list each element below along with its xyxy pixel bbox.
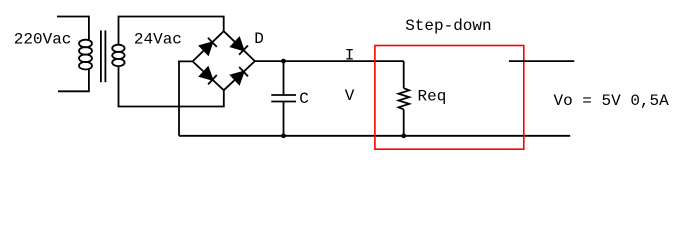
svg-text:V: V (345, 87, 355, 105)
diode D1 top-left (193, 31, 224, 61)
step-down converter block red box (375, 46, 524, 150)
diode D3 bottom-left (193, 61, 224, 90)
svg-text:220Vac: 220Vac (14, 31, 72, 49)
diode D2 top-right (224, 31, 255, 61)
svg-text:Vo = 5V 0,5A: Vo = 5V 0,5A (554, 92, 670, 110)
wire primary top stub (57, 17, 89, 42)
wire secondary bottom to bridge AC input (119, 66, 224, 107)
svg-text:C: C (299, 90, 309, 108)
node junction capacitor bottom (281, 133, 286, 138)
transformer T1 primary winding (79, 40, 92, 70)
svg-text:24Vac: 24Vac (134, 31, 182, 49)
transformer T1 secondary winding (112, 45, 124, 66)
svg-text:Req: Req (418, 87, 447, 105)
wire output top stub (509, 60, 574, 62)
svg-text:D: D (254, 30, 264, 48)
svg-text:I: I (345, 46, 355, 64)
wire bridge positive output top rail (255, 60, 404, 62)
resistor Req (399, 61, 410, 136)
node junction capacitor top (281, 59, 286, 64)
transformer core (101, 30, 106, 82)
wire primary bottom stub (58, 69, 89, 92)
wire bottom rail (179, 135, 570, 137)
diode D4 bottom-right (224, 61, 255, 90)
svg-text:Step-down: Step-down (405, 17, 491, 35)
wire bridge negative output to bottom rail (179, 61, 193, 135)
capacitor C (271, 61, 296, 136)
wire secondary top to bridge AC input (119, 17, 224, 46)
node junction resistor bottom (401, 133, 406, 138)
